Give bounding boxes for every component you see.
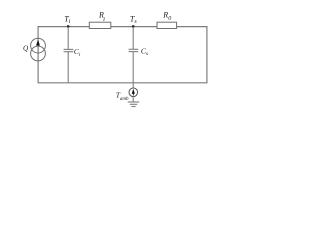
wire top-left segment (node A to R_i) [38,26,89,28]
svg-text:Q: Q [23,44,29,52]
wire right vertical [206,26,208,83]
resistor R_0 [157,22,177,28]
resistor R_i [89,22,111,28]
wire R_0 to top-right corner [177,26,208,28]
svg-text:Ri: Ri [98,11,105,23]
voltage source T_amb (circle with arrow) [129,83,138,102]
wire bottom [38,82,207,84]
wire between R_i and R_0 [111,26,157,28]
node T_i (junction dot) [67,25,70,28]
node T_s (junction dot) [132,25,135,28]
arrow of source T_amb [132,89,135,94]
svg-text:Ts: Ts [130,14,137,25]
svg-text:R0: R0 [162,10,171,22]
wire left vertical [37,26,39,83]
current source Q (two interlocking circles) [31,38,46,61]
svg-text:Ti: Ti [64,14,70,25]
ground [128,102,140,107]
svg-text:Ci: Ci [74,47,81,58]
capacitor C_i [64,27,74,83]
capacitor C_s [129,27,139,83]
svg-text:Cs: Cs [141,46,148,57]
arrow of source Q [36,40,40,46]
svg-text:Tamb: Tamb [116,91,129,102]
